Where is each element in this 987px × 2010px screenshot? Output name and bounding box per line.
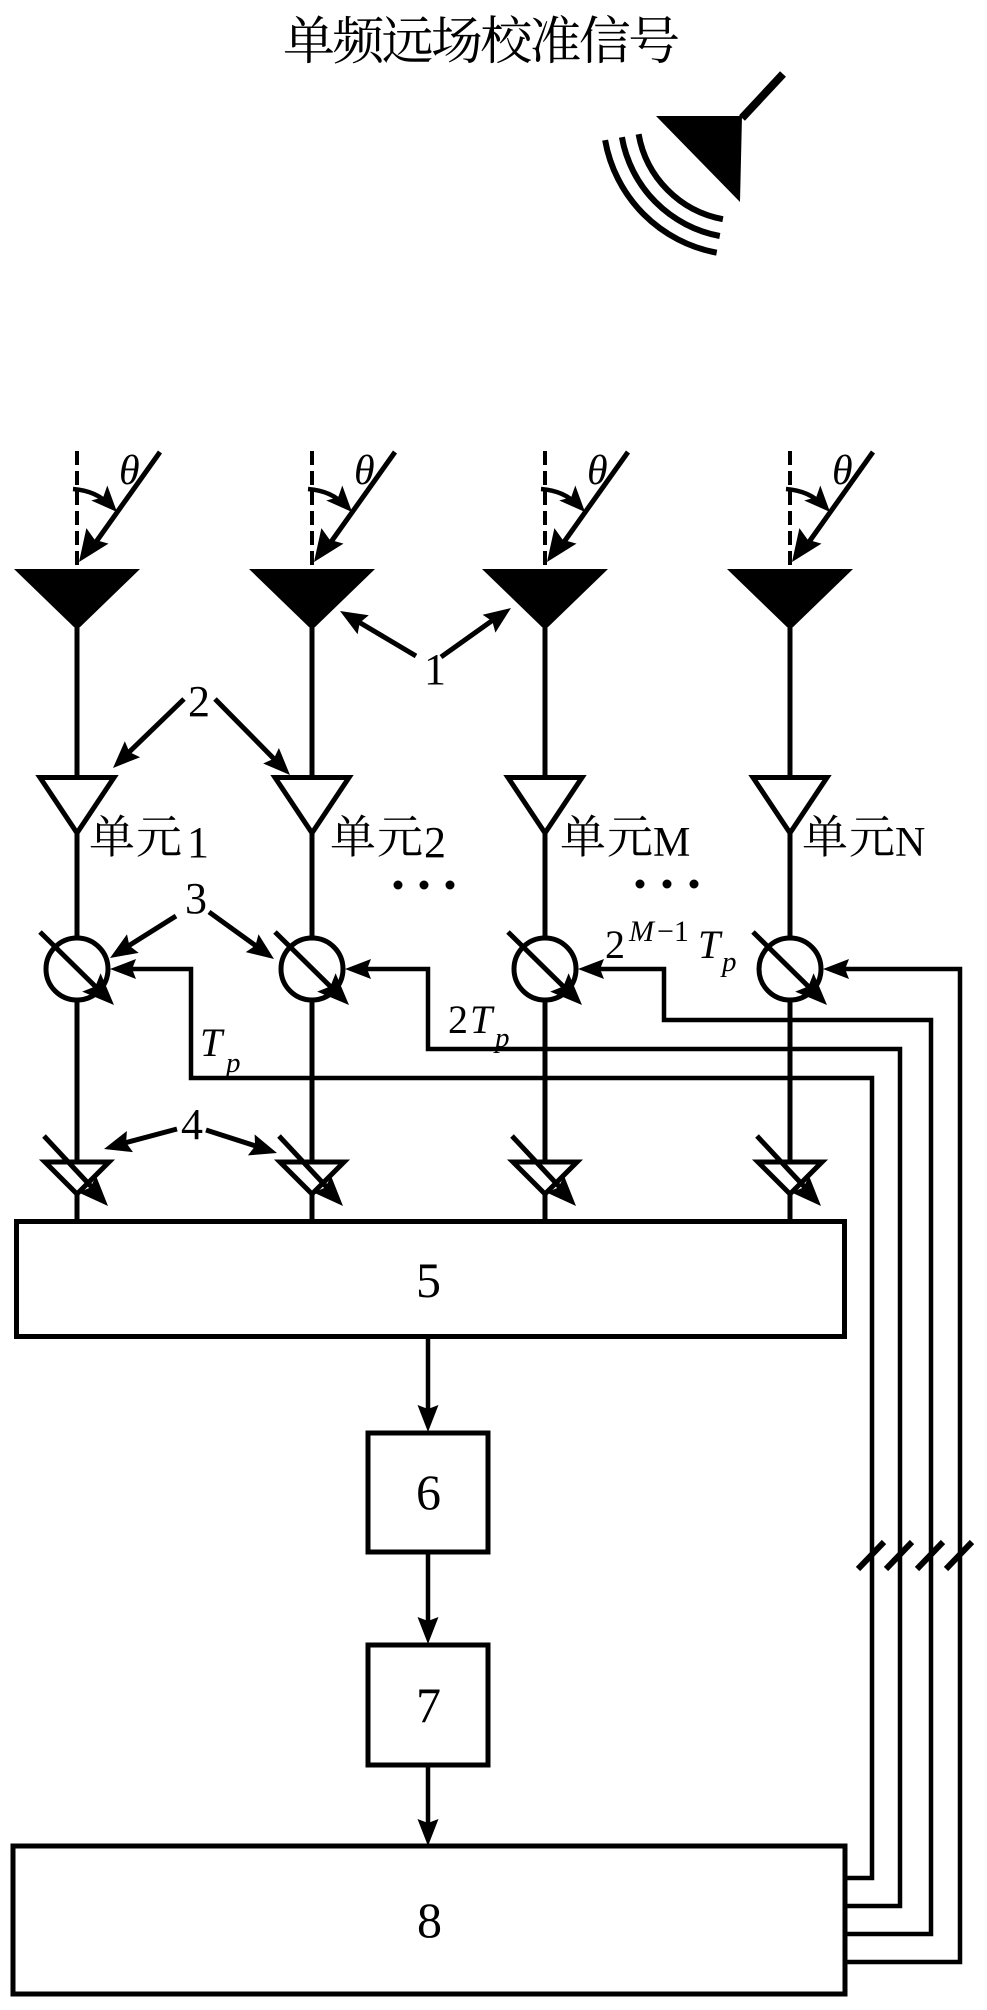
wire 5 to 6 — [418, 1337, 439, 1432]
theta angle arc col3 — [541, 486, 585, 513]
attenuator col2 — [279, 1136, 344, 1206]
svg-text:2: 2 — [424, 818, 446, 867]
svg-text:p: p — [224, 1047, 241, 1079]
box 6 — [368, 1433, 488, 1552]
label 单元2 — [332, 814, 446, 867]
svg-text:1: 1 — [424, 645, 446, 694]
wire amp to phase shifter col3 — [543, 833, 548, 940]
wire 2Tp control to phase shifter 2 — [345, 959, 900, 1906]
incident ray arrow col3 — [547, 452, 628, 562]
svg-text:6: 6 — [416, 1464, 441, 1520]
svg-text:θ: θ — [119, 448, 140, 494]
label 单元M — [562, 814, 691, 866]
svg-text:N: N — [895, 820, 925, 866]
wire Tp control to phase shifter 1 — [110, 959, 872, 1878]
ellipsis between col2 and col3 — [394, 881, 455, 890]
incident ray arrow col4 — [792, 452, 873, 562]
attenuator col1 — [44, 1136, 109, 1206]
wire antenna to amp col3 — [543, 628, 548, 778]
wire antenna to amp col1 — [75, 628, 80, 778]
antenna element col3 — [482, 569, 608, 630]
wire attenuator to combiner col4 — [788, 1194, 793, 1224]
amplifier col4 — [753, 778, 827, 834]
label Tp — [200, 1020, 241, 1079]
label 2Tp — [448, 997, 510, 1054]
label 单元1 — [91, 814, 209, 867]
boresight dashed line col2 — [310, 451, 314, 568]
incident ray arrow col1 — [79, 452, 160, 562]
wire control to phase shifter 4 — [823, 959, 960, 1962]
wire phase shifter to attenuator col4 — [788, 1000, 793, 1162]
svg-text:θ: θ — [354, 448, 375, 494]
antenna element col2 — [249, 569, 375, 630]
svg-text:7: 7 — [416, 1677, 441, 1733]
label 单元N — [804, 814, 926, 866]
svg-text:p: p — [493, 1022, 510, 1054]
wire phase shifter to attenuator col3 — [543, 1000, 548, 1162]
ellipsis between col3 and col4 — [636, 880, 699, 889]
svg-text:T: T — [698, 922, 723, 967]
wire attenuator to combiner col1 — [75, 1194, 80, 1224]
combiner box 5 — [17, 1222, 845, 1337]
svg-text:4: 4 — [181, 1100, 203, 1149]
boresight dashed line col1 — [75, 451, 79, 568]
phase shifter col2 — [275, 932, 349, 1005]
amplifier col3 — [508, 778, 582, 834]
svg-text:2: 2 — [188, 677, 210, 726]
attenuator col4 — [757, 1136, 822, 1206]
phase shifter col3 — [508, 932, 582, 1005]
boresight dashed line col3 — [543, 451, 547, 568]
svg-text:M: M — [628, 915, 656, 948]
amplifier col2 — [275, 778, 349, 834]
theta angle arc col2 — [308, 486, 352, 513]
svg-text:2: 2 — [448, 997, 468, 1042]
amplifier col1 — [40, 778, 114, 834]
controller box 8 — [13, 1846, 845, 1994]
wire phase shifter to attenuator col1 — [75, 1000, 80, 1162]
svg-text:p: p — [720, 946, 737, 978]
svg-text:5: 5 — [416, 1252, 441, 1308]
wire amp to phase shifter col1 — [75, 833, 80, 940]
svg-text:3: 3 — [185, 874, 207, 923]
wire antenna to amp col4 — [788, 628, 793, 778]
incident ray arrow col2 — [314, 452, 395, 562]
title 单频远场校准信号 — [285, 15, 678, 64]
wire phase shifter to attenuator col2 — [310, 1000, 315, 1162]
attenuator col3 — [512, 1136, 577, 1206]
box 7 — [368, 1645, 488, 1765]
wavefront arcs — [605, 134, 723, 253]
label 2 with arrows to amplifiers — [113, 677, 290, 775]
wire amp to phase shifter col2 — [310, 833, 315, 940]
wire attenuator to combiner col2 — [310, 1194, 315, 1224]
svg-text:−1: −1 — [657, 915, 689, 948]
wire 6 to 7 — [418, 1552, 439, 1644]
phase shifter col4 — [753, 932, 827, 1005]
far-field calibration source antenna — [656, 74, 783, 202]
svg-text:T: T — [470, 997, 495, 1042]
svg-text:1: 1 — [187, 818, 209, 867]
label 3 with arrows to phase shifters — [110, 874, 274, 959]
svg-text:8: 8 — [417, 1892, 442, 1948]
svg-text:M: M — [653, 820, 690, 866]
boresight dashed line col4 — [788, 451, 792, 568]
theta angle arc col4 — [786, 486, 830, 513]
antenna element col1 — [14, 569, 140, 630]
svg-text:θ: θ — [587, 448, 608, 494]
svg-text:2: 2 — [605, 922, 625, 967]
phase shifter col1 — [40, 932, 114, 1005]
svg-text:θ: θ — [832, 448, 853, 494]
wire antenna to amp col2 — [310, 628, 315, 778]
break marks on control wires — [858, 1542, 972, 1569]
svg-text:T: T — [200, 1020, 225, 1065]
label 4 with arrows to attenuators — [104, 1100, 277, 1155]
theta angle arc col1 — [73, 486, 117, 513]
wire 2^(M-1)Tp control to phase shifter 3 — [578, 959, 931, 1934]
label 2^(M-1)Tp — [605, 915, 737, 978]
label 1 with arrows to antennas — [340, 608, 511, 694]
wire amp to phase shifter col4 — [788, 833, 793, 940]
antenna element col4 — [727, 569, 853, 630]
wire attenuator to combiner col3 — [543, 1194, 548, 1224]
wire 7 to 8 — [418, 1765, 439, 1846]
